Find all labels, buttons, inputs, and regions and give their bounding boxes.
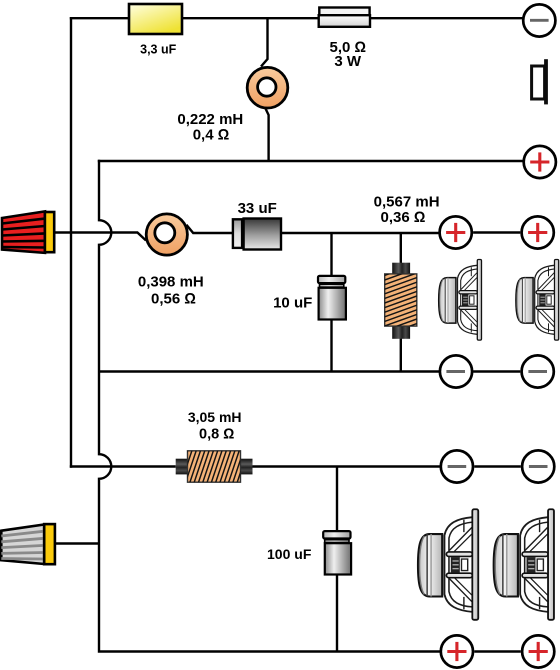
input terminal J2 negative (gray) xyxy=(1,524,55,564)
capacitor C3 10uF xyxy=(318,276,346,320)
capacitor C2 33uF xyxy=(233,219,281,250)
speaker SP2 midrange xyxy=(439,260,482,341)
wire: mid return row xyxy=(99,370,440,372)
terminal woofer minus right xyxy=(522,450,554,482)
wire: mid feed row from input xyxy=(54,225,440,241)
wire: positive bus A (left vertical) xyxy=(70,17,72,468)
capacitor C4 100uF xyxy=(323,531,351,574)
wire: 0,567mH branch xyxy=(400,233,402,372)
speaker SP5 woofer xyxy=(494,509,554,620)
svg-text:3,3 uF: 3,3 uF xyxy=(140,43,176,57)
capacitor C1 3,3uF xyxy=(129,4,182,34)
terminal tweeter plus xyxy=(524,146,556,178)
inductor L1 0,222mH toroid xyxy=(247,67,288,108)
svg-text:0,56 Ω: 0,56 Ω xyxy=(151,291,196,308)
wire: between mid minus terminals xyxy=(473,370,520,372)
svg-text:0,398 mH: 0,398 mH xyxy=(138,274,204,291)
terminal mid minus right xyxy=(522,355,554,387)
resistor R1 5,0ohm 3W xyxy=(319,8,370,27)
speaker SP3 midrange xyxy=(516,260,559,341)
svg-text:100 uF: 100 uF xyxy=(267,546,312,562)
wire: 100uF branch xyxy=(336,467,338,652)
terminal tweeter minus xyxy=(523,4,555,36)
wire: between woofer plus terminals xyxy=(474,650,521,652)
input terminal J1 positive (red) xyxy=(2,211,54,253)
wire: toroid L1 branch vertical xyxy=(261,18,269,161)
terminal woofer minus left xyxy=(441,450,473,482)
terminal mid minus left xyxy=(440,355,472,387)
wire: between woofer minus terminals xyxy=(474,465,521,467)
wire: row 2 (tweeter return) xyxy=(98,160,524,162)
svg-text:0,8 Ω: 0,8 Ω xyxy=(199,427,234,443)
inductor L3 0,567mH xyxy=(383,263,419,341)
svg-text:10 uF: 10 uF xyxy=(273,294,312,311)
terminal mid plus left xyxy=(440,216,472,248)
svg-text:3 W: 3 W xyxy=(334,53,362,70)
tweeter SP1 xyxy=(532,59,548,104)
wire: negative bus B vertical with hops and bottom run xyxy=(99,160,441,652)
wire: 10uF branch xyxy=(330,233,332,372)
inductor L4 3,05mH xyxy=(176,450,253,484)
terminal woofer plus left xyxy=(441,635,473,667)
wire: woofer feed row xyxy=(70,465,441,467)
svg-text:0,222 mH: 0,222 mH xyxy=(177,111,243,128)
svg-text:0,36 Ω: 0,36 Ω xyxy=(381,209,426,226)
wire: between mid plus terminals xyxy=(473,231,520,233)
svg-text:3,05 mH: 3,05 mH xyxy=(188,409,242,425)
speaker SP4 woofer xyxy=(418,509,478,620)
wire: top row (tweeter feed) xyxy=(70,17,523,19)
terminal woofer plus right xyxy=(522,635,554,667)
wire: negative input lead xyxy=(55,542,99,544)
svg-text:0,4 Ω: 0,4 Ω xyxy=(193,127,230,144)
terminal mid plus right xyxy=(522,216,554,248)
inductor L2 0,398mH toroid xyxy=(146,214,187,255)
svg-text:33 uF: 33 uF xyxy=(238,200,277,217)
